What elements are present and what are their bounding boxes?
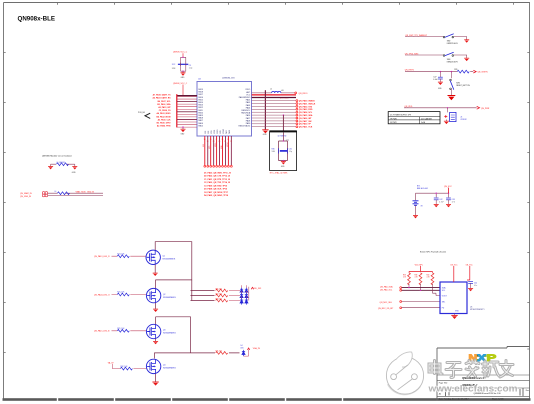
svg-text:NX3008NBKS: NX3008NBKS <box>163 368 176 370</box>
svg-text:PA31/XTAL32: PA31/XTAL32 <box>238 125 250 128</box>
svg-text:VDDIO: VDDIO <box>227 141 229 147</box>
svg-text:VSW: VSW <box>221 145 223 149</box>
svg-text:R31_330: R31_330 <box>216 350 223 352</box>
svg-text:32.768KHz: 32.768KHz <box>278 136 287 138</box>
svg-text:PA02: PA02 <box>246 101 250 104</box>
svg-text:A7_PA19_UART_TX: A7_PA19_UART_TX <box>153 94 172 97</box>
svg-text:R29_10K: R29_10K <box>117 328 125 330</box>
svg-text:Extern NFC Pad with J10,J11: Extern NFC Pad with J10,J11 <box>420 251 447 254</box>
svg-text:30: 30 <box>207 141 209 143</box>
svg-text:QN9080 Module Circuit Isolatio: QN9080 Module Circuit Isolation <box>42 155 73 158</box>
svg-text:PA28: PA28 <box>246 119 250 122</box>
svg-text:R24_10K: R24_10K <box>117 253 125 255</box>
svg-text:XC2: XC2 <box>172 64 176 66</box>
svg-text:Date: Tuesday, December 05,: Date: Tuesday, December 05, 2017 <box>439 397 469 400</box>
svg-text:QN908x-BLE: QN908x-BLE <box>18 16 55 23</box>
svg-text:D4: D4 <box>241 345 243 347</box>
svg-text:10M: 10M <box>272 151 276 153</box>
svg-text:L6: L6 <box>55 191 57 193</box>
svg-text:RESET_BUTTON: RESET_BUTTON <box>456 85 470 87</box>
svg-text:D3_PA08_QN_SCK_TP16: D3_PA08_QN_SCK_TP16 <box>204 188 227 191</box>
svg-text:25: 25 <box>222 139 224 141</box>
svg-text:QN_PAD_SDA: QN_PAD_SDA <box>380 286 393 289</box>
svg-text:PA19: PA19 <box>198 88 202 91</box>
svg-text:PA06: PA06 <box>198 122 202 125</box>
svg-text:27: 27 <box>216 139 218 141</box>
svg-text:DC POWER SUPPLY JP9: DC POWER SUPPLY JP9 <box>390 114 411 116</box>
svg-text:R28_330: R28_330 <box>216 298 223 300</box>
svg-text:PA09: PA09 <box>198 114 202 117</box>
svg-text:PA26: PA26 <box>246 114 250 117</box>
svg-text:1.2p: 1.2p <box>289 151 292 153</box>
svg-text:0.1uF: 0.1uF <box>433 79 437 81</box>
svg-text:QN_PA13_LED_R: QN_PA13_LED_R <box>94 255 110 258</box>
svg-text:Sheet 4 of 18: Sheet 4 of 18 <box>492 397 503 400</box>
svg-text:PA08: PA08 <box>198 117 202 120</box>
svg-text:1.0p: 1.0p <box>189 68 193 70</box>
svg-text:PA07: PA07 <box>198 119 202 122</box>
svg-text:PA03: PA03 <box>246 104 250 107</box>
svg-text:C44: C44 <box>474 282 477 284</box>
svg-text:R27_330: R27_330 <box>216 293 223 295</box>
svg-text:NX3008NBKS: NX3008NBKS <box>163 297 176 299</box>
svg-text:Rev: Rev <box>526 390 529 392</box>
svg-text:RTC_XTAL_32.768K: RTC_XTAL_32.768K <box>270 171 288 174</box>
svg-text:VBAT_MOD: VBAT_MOD <box>76 191 87 194</box>
svg-text:A5_PA15_INT: A5_PA15_INT <box>158 106 171 109</box>
svg-text:PA24/SCL: PA24/SCL <box>242 109 251 112</box>
svg-text:5V PWR: 5V PWR <box>390 122 397 124</box>
svg-text:A3_PA11_CLK: A3_PA11_CLK <box>158 118 172 121</box>
svg-text:QN9080DK rev1.1: QN9080DK rev1.1 <box>462 376 484 380</box>
svg-text:VDDIO: VDDIO <box>223 128 225 134</box>
svg-text:R39: R39 <box>415 275 418 277</box>
svg-text:C1_PA21_QN_RTS_TP13_J9: C1_PA21_QN_RTS_TP13_J9 <box>204 178 230 181</box>
svg-text:VOUT: VOUT <box>442 295 448 297</box>
svg-text:26: 26 <box>219 141 221 143</box>
svg-text:VDA_3V: VDA_3V <box>253 347 261 350</box>
svg-text:PA10: PA10 <box>198 111 202 114</box>
svg-text:Q2: Q2 <box>163 294 165 296</box>
svg-text:D4_PA05_QN_MISO_TP18: D4_PA05_QN_MISO_TP18 <box>204 194 229 197</box>
svg-text:Q1: Q1 <box>163 256 165 258</box>
svg-text:Def. DANGER: Def. DANGER <box>421 117 433 120</box>
svg-text:4.7K: 4.7K <box>427 277 430 279</box>
svg-text:PA11: PA11 <box>198 109 202 112</box>
svg-text:PA18: PA18 <box>198 91 202 94</box>
svg-text:PA13: PA13 <box>198 104 202 107</box>
svg-text:D1_PA23_QN_SWO_TP11_J9: D1_PA23_QN_SWO_TP11_J9 <box>204 171 231 174</box>
svg-text:PA05: PA05 <box>198 124 202 127</box>
svg-text:QN_GND_IN: QN_GND_IN <box>20 196 32 198</box>
svg-text:QN_VBAT_IN: QN_VBAT_IN <box>20 192 32 195</box>
svg-text:POU_B4: POU_B4 <box>138 112 145 114</box>
svg-text:PA30: PA30 <box>246 122 250 125</box>
svg-text:QN908_VCC_C: QN908_VCC_C <box>173 51 188 53</box>
svg-text:Q4: Q4 <box>163 365 165 367</box>
svg-text:QN9080_BG: QN9080_BG <box>222 78 235 80</box>
svg-text:VDD_NFC: VDD_NFC <box>415 265 424 267</box>
svg-text:29: 29 <box>210 139 212 141</box>
svg-text:28: 28 <box>213 141 215 143</box>
svg-text:4.7K: 4.7K <box>415 277 418 279</box>
svg-text:C5_PA14_CS: C5_PA14_CS <box>159 109 171 112</box>
svg-text:VA_3V: VA_3V <box>108 361 114 364</box>
svg-text:QN_PA30_TP: QN_PA30_TP <box>299 123 312 126</box>
svg-text:R32_10K: R32_10K <box>120 366 128 368</box>
svg-text:22: 22 <box>230 141 232 143</box>
svg-text:R26_330: R26_330 <box>216 288 223 290</box>
svg-text:D2_PA22_QN_CTS_TP12_J9: D2_PA22_QN_CTS_TP12_J9 <box>204 175 230 178</box>
svg-text:TP PWR: TP PWR <box>390 118 397 120</box>
svg-text:PA25/SDA: PA25/SDA <box>241 112 251 115</box>
svg-text:R25_10K: R25_10K <box>117 292 125 294</box>
svg-text:QN_PA27_SW: QN_PA27_SW <box>299 120 312 123</box>
svg-text:PA15: PA15 <box>198 98 202 101</box>
svg-text:PA14: PA14 <box>198 101 202 104</box>
svg-text:17.0: 17.0 <box>452 202 455 204</box>
svg-text:31: 31 <box>204 139 206 141</box>
svg-text:C3_PA09_QN_RXD_TP15: C3_PA09_QN_RXD_TP15 <box>204 184 228 187</box>
svg-text:VSS: VSS <box>205 131 207 134</box>
svg-text:QN_PA15_LED_B: QN_PA15_LED_B <box>94 330 110 333</box>
svg-text:BAT-HLD-001: BAT-HLD-001 <box>417 187 428 190</box>
svg-text:B6_PA17_SCL: B6_PA17_SCL <box>158 100 172 103</box>
svg-text:VDD1: VDD1 <box>214 130 216 134</box>
svg-text:QN_RFIO: QN_RFIO <box>299 93 308 95</box>
svg-text:R38: R38 <box>403 275 406 277</box>
svg-text:R35: R35 <box>454 69 457 71</box>
svg-text:24: 24 <box>224 141 226 143</box>
svg-text:PA12: PA12 <box>198 106 202 109</box>
svg-text:QN_PWR: QN_PWR <box>481 108 490 110</box>
svg-text:PA27: PA27 <box>246 117 250 120</box>
svg-text:SCL: SCL <box>442 290 446 292</box>
svg-text:PA04: PA04 <box>246 106 250 109</box>
svg-text:B4_PA12_MOSI: B4_PA12_MOSI <box>157 115 171 118</box>
svg-text:NX3008NBKS: NX3008NBKS <box>163 333 176 335</box>
svg-text:NX3008NBKS: NX3008NBKS <box>163 259 176 261</box>
svg-text:VREG: VREG <box>217 129 219 134</box>
svg-text:QN_PA24_SCL: QN_PA24_SCL <box>299 111 313 114</box>
svg-text:VSS: VSS <box>203 144 205 147</box>
svg-text:QN908_VCC_C: QN908_VCC_C <box>173 83 188 85</box>
svg-text:L2: L2 <box>270 89 272 91</box>
svg-text:A2_PA06_TP09: A2_PA06_TP09 <box>157 125 171 128</box>
svg-text:www.elecfans.com: www.elecfans.com <box>427 384 517 395</box>
svg-text:A6_PA18_UART_RX: A6_PA18_UART_RX <box>152 97 171 100</box>
svg-text:VDD_3V3: VDD_3V3 <box>253 288 261 290</box>
svg-text:32M: 32M <box>172 68 176 70</box>
svg-text:B3_PA10_GPIO: B3_PA10_GPIO <box>157 122 171 125</box>
svg-text:QN_PA31_TCK: QN_PA31_TCK <box>299 126 313 129</box>
svg-text:B5_PA16_SDA: B5_PA16_SDA <box>157 103 171 106</box>
svg-text:R40: R40 <box>427 275 430 277</box>
svg-text:QN_PAD_SCL: QN_PAD_SCL <box>380 288 392 291</box>
svg-text:QN_NFC_SEL: QN_NFC_SEL <box>380 302 392 304</box>
svg-text:4.7uF: 4.7uF <box>439 202 443 204</box>
svg-text:QN_PA02_TXD: QN_PA02_TXD <box>299 105 313 108</box>
svg-text:QN_PA26_INT: QN_PA26_INT <box>299 117 312 120</box>
svg-text:A4_PA13_MISO: A4_PA13_MISO <box>157 112 171 115</box>
svg-text:PA00/SWDIO: PA00/SWDIO <box>239 96 251 99</box>
svg-text:PA01: PA01 <box>246 99 250 102</box>
svg-text:0.1u: 0.1u <box>474 285 477 287</box>
svg-text:SEL: SEL <box>442 301 445 303</box>
svg-text:Q3: Q3 <box>163 330 165 332</box>
svg-text:NT3H2211W0FT1: NT3H2211W0FT1 <box>470 309 484 311</box>
svg-text:QN_nRSTN: QN_nRSTN <box>477 71 488 73</box>
svg-text:PA17: PA17 <box>198 93 202 96</box>
svg-text:KMR221GLFS: KMR221GLFS <box>447 43 459 45</box>
svg-text:VSS: VSS <box>208 131 210 134</box>
svg-text:KMR221GLFS: KMR221GLFS <box>447 61 459 63</box>
svg-text:QN_PA25_SDA: QN_PA25_SDA <box>299 114 313 117</box>
svg-text:QN_PA00_SWDIO: QN_PA00_SWDIO <box>299 100 315 103</box>
svg-text:QN_PA01_SWCLK: QN_PA01_SWCLK <box>299 102 316 105</box>
svg-text:C2_PA20_QN_TXD_TP14_J9: C2_PA20_QN_TXD_TP14_J9 <box>204 181 230 184</box>
svg-text:U5: U5 <box>470 306 472 308</box>
svg-text:QN_NFC_FD_INT: QN_NFC_FD_INT <box>378 308 394 310</box>
svg-text:VSW: VSW <box>220 130 222 134</box>
svg-text:DN_VCC: DN_VCC <box>451 264 459 266</box>
svg-text:PA16: PA16 <box>198 96 202 99</box>
svg-text:GND_M: GND_M <box>87 192 94 194</box>
svg-text:CR2032: CR2032 <box>460 119 466 121</box>
svg-text:QN_PA03_RXD: QN_PA03_RXD <box>299 108 313 111</box>
svg-text:4.7K: 4.7K <box>403 277 406 279</box>
svg-text:QN_PA04_LED_G: QN_PA04_LED_G <box>94 293 110 296</box>
svg-text:23: 23 <box>227 139 229 141</box>
svg-text:C4_PA07_QN_MOSI_TP17: C4_PA07_QN_MOSI_TP17 <box>204 191 228 194</box>
